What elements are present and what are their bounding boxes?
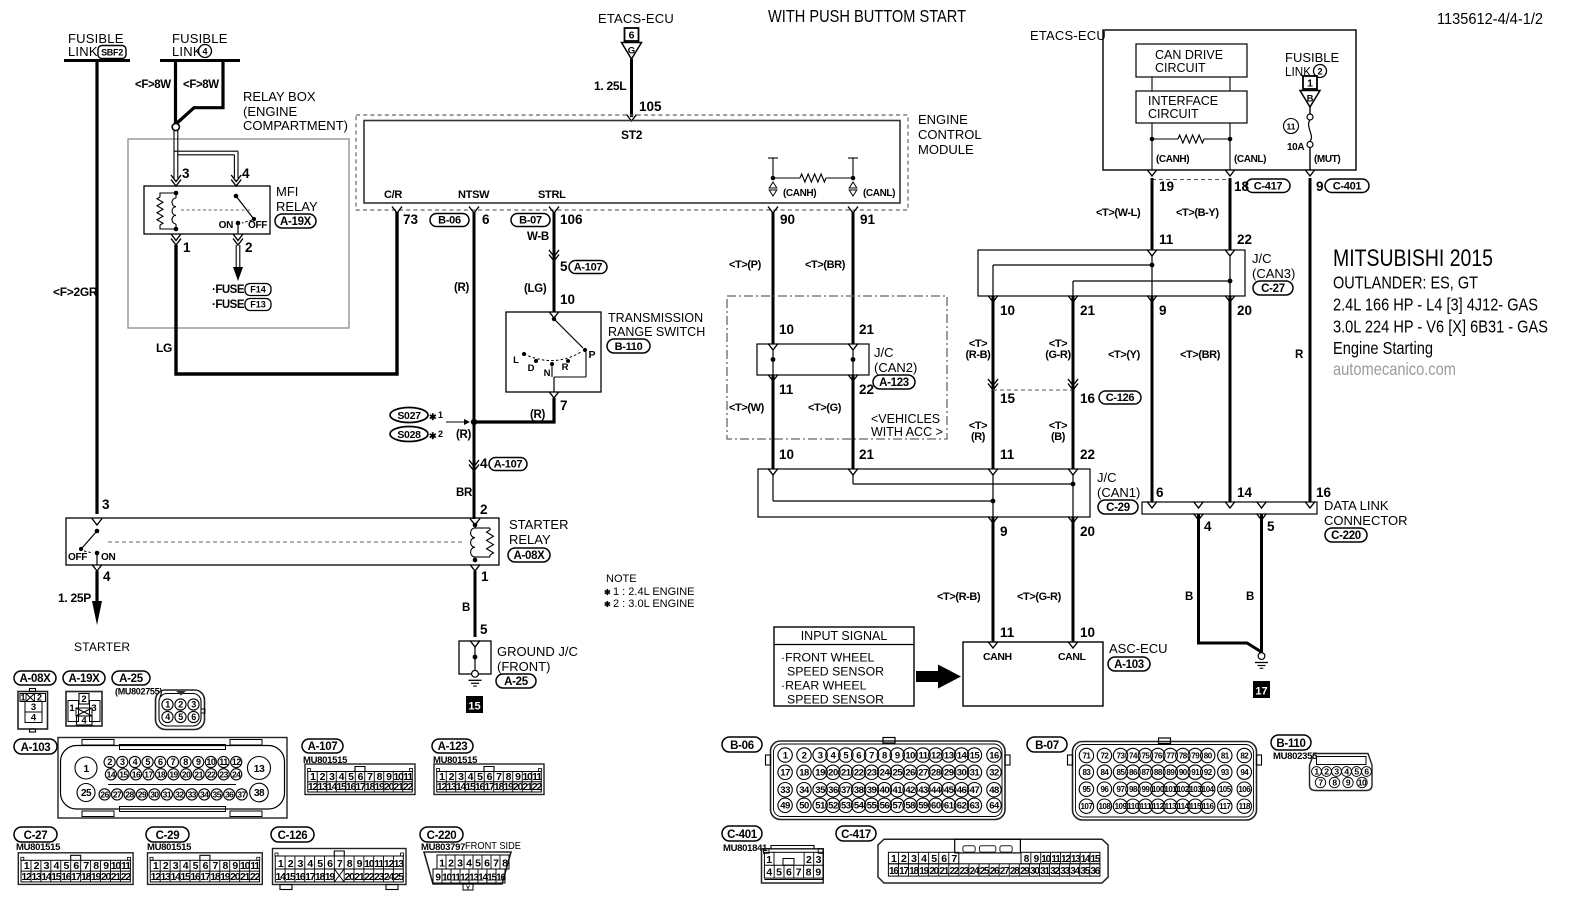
MFI relay label <box>275 184 318 228</box>
svg-text:60: 60 <box>931 801 941 812</box>
svg-text:(R): (R) <box>530 409 546 421</box>
svg-text:10: 10 <box>560 292 575 307</box>
svg-text:ETACS-ECU: ETACS-ECU <box>598 11 674 26</box>
svg-text:automecanico.com: automecanico.com <box>1333 359 1456 379</box>
starter relay switch <box>68 529 115 565</box>
svg-text:20: 20 <box>1080 524 1095 539</box>
svg-text:43: 43 <box>918 785 928 796</box>
wire relay box feed branch to MFI pin 4 <box>174 151 238 178</box>
label pin 10 CAN2 <box>779 322 794 337</box>
svg-text:C-27: C-27 <box>1261 283 1285 295</box>
label pin 10 below CAN3 <box>1000 303 1015 318</box>
svg-text:(CANH): (CANH) <box>783 188 816 199</box>
svg-text:J/C: J/C <box>1252 251 1272 266</box>
svg-text:A-25: A-25 <box>504 676 529 688</box>
label <T>(BR) right <box>1180 349 1221 361</box>
label <T>(R-B) lower <box>937 591 981 603</box>
junction block J/C (CAN2) A-123 box <box>757 344 869 375</box>
svg-text:(R): (R) <box>454 282 470 294</box>
TRS pin 7 mark <box>549 392 568 414</box>
svg-text:19: 19 <box>169 769 178 779</box>
transmission range switch box <box>506 312 601 392</box>
svg-text:37: 37 <box>237 789 246 799</box>
svg-text:93: 93 <box>1221 768 1230 777</box>
label B DLC 4 <box>1185 591 1193 603</box>
svg-text:25: 25 <box>394 871 405 883</box>
svg-text:A-123: A-123 <box>879 377 909 389</box>
svg-text:117: 117 <box>1219 802 1231 811</box>
svg-text:A-08X: A-08X <box>513 550 545 562</box>
DLC pin marks <box>1147 502 1315 521</box>
ground symbol A-25 <box>469 670 482 686</box>
svg-text:(CAN3): (CAN3) <box>1252 266 1295 281</box>
svg-text:A-19X: A-19X <box>280 216 312 228</box>
ETACS pin 19 mark <box>1147 170 1174 195</box>
starter relay pin 2 mark <box>470 519 480 526</box>
svg-text:(CAN2): (CAN2) <box>874 360 917 375</box>
svg-text:16: 16 <box>989 750 999 761</box>
svg-text:47: 47 <box>970 785 980 796</box>
label pin 10 CAN1 <box>779 447 794 462</box>
watermark automecanico.com <box>1333 359 1456 379</box>
junction node fusible link 4 <box>172 123 179 130</box>
svg-text:✱: ✱ <box>429 431 437 441</box>
svg-text:50: 50 <box>799 801 809 812</box>
svg-text:9: 9 <box>196 757 201 767</box>
dashed link 19-18 <box>1152 179 1230 181</box>
svg-text:B-07: B-07 <box>1035 740 1059 752</box>
label <F>8W left <box>135 79 171 91</box>
svg-text:6: 6 <box>786 867 792 879</box>
connector pill C-401 top <box>1325 179 1369 193</box>
svg-text:30: 30 <box>150 789 159 799</box>
connector pill C-29 bottom <box>146 827 189 842</box>
svg-text:94: 94 <box>1240 768 1249 777</box>
label 1.25P <box>58 591 91 605</box>
svg-text:S028: S028 <box>397 429 421 441</box>
svg-text:2: 2 <box>81 694 86 705</box>
svg-text:73: 73 <box>1117 751 1126 760</box>
svg-text:75: 75 <box>1141 751 1150 760</box>
svg-text:26: 26 <box>100 789 109 799</box>
svg-text:82: 82 <box>1240 751 1249 760</box>
wire B starter relay to ground <box>474 571 477 637</box>
svg-text:1: 1 <box>69 703 75 714</box>
label STARTER <box>74 640 130 654</box>
connector pinout A-08X <box>18 689 48 733</box>
label pin 20 CAN1 <box>1080 524 1095 539</box>
connector pill B-06 <box>430 214 469 227</box>
svg-text:LG: LG <box>156 341 172 355</box>
starter relay pin 4 mark <box>92 565 111 585</box>
svg-text:N: N <box>544 368 551 379</box>
J/C CAN3 label <box>1252 251 1295 295</box>
label pin 21 CAN1 <box>859 447 875 462</box>
ETACS internal CANH wire <box>1150 77 1155 170</box>
wire <T>(B-Y) <box>1229 178 1232 250</box>
svg-text:(CANL): (CANL) <box>1234 154 1266 165</box>
label pin 10 ASC <box>1080 625 1095 640</box>
label <T>(B-Y) <box>1176 207 1219 219</box>
label (CANL) ETACS <box>1234 154 1266 165</box>
TRS selector contact <box>513 317 595 392</box>
svg-text:17: 17 <box>144 769 153 779</box>
svg-text:<F>2GR: <F>2GR <box>53 285 98 299</box>
svg-text:WITH ACC >: WITH ACC > <box>871 425 943 439</box>
svg-text:105: 105 <box>639 99 662 114</box>
svg-text:B-110: B-110 <box>1276 738 1305 750</box>
svg-text:37: 37 <box>841 785 851 796</box>
svg-text:20: 20 <box>828 768 838 779</box>
label BR <box>456 487 473 499</box>
label pin 5 DLC <box>1267 519 1275 534</box>
label 16 + pill C-126 <box>1080 391 1141 406</box>
svg-text:C-401: C-401 <box>727 829 758 841</box>
wire B DLC pin 5 <box>1260 514 1263 652</box>
label (CANL) in ECM <box>863 188 895 199</box>
label (R) TRS wire <box>530 409 546 421</box>
svg-text:24: 24 <box>880 768 891 779</box>
label <T>(B) <box>1049 420 1067 443</box>
svg-text:90: 90 <box>1179 768 1188 777</box>
J/C CAN2 pin marks bottom <box>768 375 858 382</box>
connector pill C-401 bottom <box>722 826 762 841</box>
svg-text:(FRONT): (FRONT) <box>497 659 550 674</box>
svg-text:92: 92 <box>1204 768 1213 777</box>
ECM pin 91 mark <box>848 207 876 228</box>
ground ref 15 <box>466 696 483 713</box>
ETACS internal CANL wire <box>1228 77 1233 170</box>
svg-text:72: 72 <box>1100 751 1109 760</box>
wire <T>(G-R) CAN1 to ASC <box>1072 517 1075 642</box>
label ST2 <box>621 128 643 142</box>
svg-text:C-126: C-126 <box>1106 392 1135 404</box>
svg-text:(ENGINE: (ENGINE <box>243 104 298 119</box>
label MU801515 C-27 <box>16 842 61 853</box>
svg-text:10: 10 <box>779 447 794 462</box>
svg-text:20: 20 <box>1237 303 1252 318</box>
starter relay actuation dashed line <box>108 541 462 543</box>
connector pill C-27 bottom <box>14 827 57 842</box>
MFI relay pin 2 mark <box>233 234 253 255</box>
svg-text:22: 22 <box>121 871 132 883</box>
svg-text:<T>(BR): <T>(BR) <box>1180 349 1221 361</box>
svg-text:22: 22 <box>532 781 543 793</box>
ETACS-ECU label top center <box>598 11 674 26</box>
connector pill C-220 bottom <box>420 827 463 842</box>
svg-text:MU801515: MU801515 <box>16 842 61 853</box>
svg-text:14: 14 <box>957 750 968 761</box>
connector pinout A-19X <box>66 692 102 727</box>
svg-text:22: 22 <box>854 768 864 779</box>
svg-text:ETACS-ECU: ETACS-ECU <box>1030 28 1106 43</box>
wire 1.25L ETACS to ECM pin 105 <box>630 59 633 117</box>
svg-text:CONTROL: CONTROL <box>918 127 982 142</box>
svg-text:R: R <box>562 362 569 373</box>
svg-text:LINK: LINK <box>172 44 202 59</box>
svg-text:F13: F13 <box>250 300 266 310</box>
svg-text:5: 5 <box>560 259 568 274</box>
label (R) below junction <box>456 429 472 441</box>
label <T>(G-R) <box>1045 338 1071 361</box>
starter relay coil <box>471 523 494 563</box>
ECM pin 6 mark <box>469 207 490 228</box>
svg-text:F14: F14 <box>250 285 266 295</box>
wire relay box feed to MFI pin 3 <box>174 131 178 179</box>
svg-text:RANGE SWITCH: RANGE SWITCH <box>608 325 705 339</box>
svg-text:36: 36 <box>828 785 838 796</box>
wire <T>(BR) CAN3 to DLC <box>1229 296 1232 502</box>
svg-text:9: 9 <box>1159 303 1167 318</box>
label pin 21 below CAN3 <box>1080 303 1096 318</box>
ETACS pin 9 mark <box>1305 170 1324 195</box>
svg-text:21: 21 <box>859 322 875 337</box>
svg-text:2: 2 <box>438 429 443 439</box>
svg-text:85: 85 <box>1117 768 1126 777</box>
svg-text:118: 118 <box>1239 802 1251 811</box>
MFI relay contact <box>181 194 267 234</box>
svg-text:2: 2 <box>802 750 807 761</box>
svg-text:S027: S027 <box>397 410 421 422</box>
svg-text:57: 57 <box>892 801 902 812</box>
connector pinout C-126 <box>273 849 407 890</box>
svg-text:32: 32 <box>175 789 184 799</box>
ETACS pin 18 mark <box>1225 170 1250 195</box>
label <T>(R) <box>969 420 987 443</box>
svg-text:MITSUBISHI 2015: MITSUBISHI 2015 <box>1333 245 1493 272</box>
svg-text:25: 25 <box>81 788 92 799</box>
svg-text:6: 6 <box>856 750 861 761</box>
svg-text:25: 25 <box>892 768 903 779</box>
svg-text:CANH: CANH <box>983 651 1012 663</box>
svg-text:✱: ✱ <box>429 412 437 422</box>
fusible link 4 label <box>172 31 228 59</box>
svg-text:(B): (B) <box>1051 431 1066 443</box>
svg-text:5: 5 <box>480 622 488 637</box>
connector pill A-107 bottom <box>302 739 343 753</box>
title MITSUBISHI 2015 <box>1333 245 1548 358</box>
svg-text:22: 22 <box>207 769 216 779</box>
J/C CAN3 internal wiring <box>993 256 1232 296</box>
connector pill C-126 bottom <box>271 827 314 842</box>
svg-text:97: 97 <box>1117 785 1126 794</box>
svg-text:CIRCUIT: CIRCUIT <box>1155 61 1206 75</box>
wire <T>(G-R) CAN3 21 to CAN1 22 <box>1072 296 1075 469</box>
svg-text:A-123: A-123 <box>438 741 468 753</box>
svg-text:95: 95 <box>1082 785 1091 794</box>
svg-text:✱: ✱ <box>604 600 611 609</box>
svg-text:B: B <box>1307 94 1314 105</box>
svg-text:2: 2 <box>480 502 488 517</box>
svg-text:53: 53 <box>841 801 851 812</box>
svg-text:90: 90 <box>780 212 795 227</box>
svg-text:<F>8W: <F>8W <box>135 79 171 91</box>
svg-text:40: 40 <box>880 785 890 796</box>
svg-text:A-25: A-25 <box>119 673 144 685</box>
svg-text:51: 51 <box>815 801 826 812</box>
svg-text:6: 6 <box>629 30 635 42</box>
svg-text:C-220: C-220 <box>1331 530 1361 542</box>
svg-text:<T>(R-B): <T>(R-B) <box>937 591 981 603</box>
svg-text:31: 31 <box>970 768 981 779</box>
connector pinout C-401 <box>762 846 824 884</box>
fusible link 4 bus bar <box>160 59 240 62</box>
J/C CAN3 pin marks bottom <box>988 296 1235 303</box>
svg-text:(MUT): (MUT) <box>1314 154 1340 165</box>
svg-text:15: 15 <box>1000 391 1016 406</box>
wire <T>(W-L) <box>1151 178 1154 250</box>
label 1.25L <box>594 79 626 93</box>
svg-text:6: 6 <box>1156 485 1164 500</box>
svg-text:58: 58 <box>905 801 915 812</box>
connector pinout A-107 <box>305 764 415 795</box>
svg-text:34: 34 <box>799 785 810 796</box>
label <T>(R-B) <box>966 338 992 361</box>
svg-text:23: 23 <box>219 769 228 779</box>
svg-text:26: 26 <box>905 768 915 779</box>
connector pill A-08X bottom <box>14 671 56 685</box>
svg-text:<F>8W: <F>8W <box>183 79 219 91</box>
svg-text:11: 11 <box>219 757 228 767</box>
svg-text:7: 7 <box>869 750 874 761</box>
svg-text:1: 1 <box>438 410 443 420</box>
svg-text:1. 25L: 1. 25L <box>594 79 626 93</box>
svg-text:OFF: OFF <box>248 220 267 231</box>
fusible link 2 connector triangle <box>1300 76 1320 107</box>
svg-text:38: 38 <box>854 785 864 796</box>
svg-text:89: 89 <box>1166 768 1175 777</box>
label W-B <box>527 231 549 243</box>
label pin 22 CAN3 <box>1237 232 1252 247</box>
svg-text:FRONT SIDE: FRONT SIDE <box>465 840 521 852</box>
svg-text:56: 56 <box>880 801 890 812</box>
svg-text:MU801515: MU801515 <box>147 842 192 853</box>
svg-text:10: 10 <box>1358 778 1367 788</box>
svg-text:ST2: ST2 <box>621 128 643 142</box>
svg-text:15: 15 <box>970 750 981 761</box>
wire <F>2GR from SBF2 to starter relay pin 3 <box>95 61 98 515</box>
J/C CAN2 pin marks top <box>768 344 858 351</box>
svg-text:<T>(B-Y): <T>(B-Y) <box>1176 207 1219 219</box>
svg-text:B: B <box>462 602 470 614</box>
connector pill C-417 top <box>1246 179 1290 193</box>
svg-text:3: 3 <box>31 702 36 713</box>
svg-text:<T>(BR): <T>(BR) <box>805 259 846 271</box>
svg-text:L: L <box>513 355 519 366</box>
svg-text:B: B <box>1185 591 1193 603</box>
svg-text:7: 7 <box>560 398 568 413</box>
svg-text:3: 3 <box>818 750 823 761</box>
svg-text:C/R: C/R <box>384 189 402 201</box>
label (CANH) in ECM <box>783 188 816 199</box>
title WITH PUSH BUTTOM START <box>768 6 966 26</box>
label (LG) <box>524 283 547 295</box>
svg-text:39: 39 <box>867 785 877 796</box>
junction block J/C (CAN3) C-27 box <box>978 250 1245 296</box>
svg-text:77: 77 <box>1166 751 1175 760</box>
data link connector box <box>1142 502 1317 514</box>
svg-text:W-B: W-B <box>527 231 549 243</box>
svg-text:34: 34 <box>200 789 209 799</box>
wire <T>(R-B) CAN3 10 to CAN1 11 <box>992 296 995 469</box>
svg-text:SPEED SENSOR: SPEED SENSOR <box>787 693 884 707</box>
MFI relay box <box>144 186 270 234</box>
ETACS termination resistor <box>1152 135 1230 143</box>
ETACS-ECU box <box>1103 30 1356 170</box>
svg-text:98: 98 <box>1129 785 1138 794</box>
wire <T>(G) CAN2 to CAN1 <box>852 375 855 469</box>
svg-text:6: 6 <box>158 757 163 767</box>
svg-text:3: 3 <box>120 757 125 767</box>
svg-text:(R-B): (R-B) <box>966 349 992 361</box>
wire W-B/LG from ECM pin 106 <box>553 212 556 312</box>
fusible link SBF2 label <box>68 31 126 59</box>
label pin 10 TRS <box>560 292 575 307</box>
svg-text:46: 46 <box>957 785 967 796</box>
svg-text:3: 3 <box>816 854 822 866</box>
svg-text:CAN DRIVE: CAN DRIVE <box>1155 48 1223 62</box>
svg-text:4: 4 <box>1204 519 1212 534</box>
svg-text:J/C: J/C <box>1097 470 1117 485</box>
wire fusible link 4 left branch <box>174 61 177 124</box>
label pin 4 DLC <box>1204 519 1212 534</box>
svg-text:108: 108 <box>1098 802 1111 811</box>
svg-text:C-27: C-27 <box>24 830 48 842</box>
svg-text:7: 7 <box>171 757 176 767</box>
svg-text:13: 13 <box>944 750 954 761</box>
svg-text:4: 4 <box>31 713 37 724</box>
svg-text:31: 31 <box>163 789 172 799</box>
ECM label <box>918 112 982 157</box>
svg-text:C-29: C-29 <box>156 830 180 842</box>
label pin 9 CAN1 <box>1000 524 1008 539</box>
svg-text:D: D <box>528 363 535 374</box>
svg-text:(R): (R) <box>971 431 986 443</box>
svg-text:54: 54 <box>854 801 865 812</box>
svg-text:10: 10 <box>779 322 794 337</box>
svg-text:B-06: B-06 <box>438 214 461 226</box>
svg-text:59: 59 <box>918 801 928 812</box>
svg-text:C-401: C-401 <box>1333 180 1362 192</box>
ECM dashed outline <box>356 115 908 210</box>
label pin 11 CAN1 <box>1000 447 1015 462</box>
connector pinout A-123 <box>434 764 544 795</box>
ECM solid box <box>364 121 900 204</box>
label pin 22 CAN2 <box>859 382 874 397</box>
svg-text:49: 49 <box>780 801 790 812</box>
label pin 16 DLC <box>1316 485 1332 500</box>
svg-text:15: 15 <box>468 701 480 713</box>
svg-text:21: 21 <box>841 768 852 779</box>
svg-text:ON: ON <box>101 552 115 563</box>
relay box label <box>243 89 348 133</box>
svg-text:NOTE: NOTE <box>606 573 637 585</box>
page number 1135612-4/4-1/2 <box>1437 11 1543 28</box>
svg-text:<T>(Y): <T>(Y) <box>1108 349 1141 361</box>
splice arrow <box>446 419 470 425</box>
ground J/C node <box>473 647 478 671</box>
input signal box <box>774 627 914 706</box>
svg-text:NTSW: NTSW <box>458 189 490 201</box>
svg-text:86: 86 <box>1129 768 1138 777</box>
svg-text:FUSIBLE: FUSIBLE <box>1285 50 1340 65</box>
dashed link C-126 <box>993 389 1073 391</box>
svg-text:55: 55 <box>867 801 878 812</box>
svg-text:·FUSE: ·FUSE <box>212 299 245 311</box>
wire LG: MFI pin 1 to ECM pin 73 <box>176 212 397 374</box>
svg-text:CIRCUIT: CIRCUIT <box>1148 107 1199 121</box>
svg-text:STRL: STRL <box>538 189 566 201</box>
